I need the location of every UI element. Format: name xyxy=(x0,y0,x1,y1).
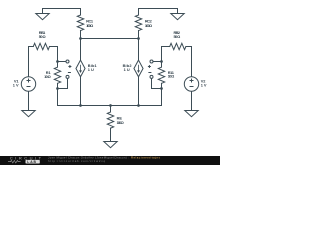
ground G1 top-left xyxy=(36,14,49,20)
ground under V1 xyxy=(22,111,35,117)
ground under V2 xyxy=(185,111,198,117)
wire node A to control terminal xyxy=(58,61,67,63)
V1 plus sign xyxy=(27,79,31,83)
V1 minus sign xyxy=(27,86,31,88)
svg-text:10 Ω: 10 Ω xyxy=(168,74,175,79)
resistor R1 xyxy=(54,62,60,84)
wire top-right rail xyxy=(139,9,178,14)
junction rail Bib1 xyxy=(79,104,82,107)
CircuitLab logo resistor zigzag xyxy=(8,160,21,163)
dependent source Bib1 xyxy=(76,60,85,77)
wire V1 to ground xyxy=(28,91,30,110)
footer bar xyxy=(0,156,220,165)
control terminal right - xyxy=(150,75,153,78)
junction rail Bib2 xyxy=(137,104,140,107)
wire RE top lead xyxy=(110,106,112,113)
wire control return right xyxy=(152,78,162,88)
wire RB2 from node B xyxy=(162,47,170,62)
svg-text:LAB: LAB xyxy=(27,160,36,164)
wire node B to control terminal xyxy=(153,61,162,63)
resistor RB1 xyxy=(33,43,49,49)
wire Bib1 top lead xyxy=(80,39,82,61)
control minus left xyxy=(68,72,71,74)
ground under RE xyxy=(104,142,117,148)
junction rail RE xyxy=(109,104,112,107)
resistor RC1 xyxy=(77,15,83,31)
svg-text:1 U: 1 U xyxy=(124,67,130,72)
voltage source V1 xyxy=(21,77,35,91)
control terminal left + xyxy=(66,60,69,63)
ground top-left stem xyxy=(42,9,44,14)
wire R11 bottom to rail xyxy=(161,83,163,105)
svg-text:Relacionvoltajes: Relacionvoltajes xyxy=(131,156,160,160)
junction under RC2 xyxy=(137,37,140,40)
control terminal left - xyxy=(66,75,69,78)
junction R11 bottom xyxy=(160,87,163,90)
wire RC2 top lead xyxy=(138,9,140,16)
svg-text:100 Ω: 100 Ω xyxy=(117,120,124,125)
wire RB1 right lead down to node A xyxy=(50,47,58,62)
svg-text:10 Ω: 10 Ω xyxy=(44,74,51,79)
junction node A xyxy=(56,60,59,63)
Bib2 arrow xyxy=(137,65,140,73)
svg-text:100 Ω: 100 Ω xyxy=(86,23,93,28)
junction node B xyxy=(160,60,163,63)
resistor RB2 xyxy=(170,43,186,49)
dependent source Bib2 xyxy=(134,60,143,77)
control minus right xyxy=(148,72,151,74)
wire RC1 bottom lead xyxy=(80,31,82,39)
resistor RC2 xyxy=(135,15,141,31)
wire V1 to RB1 xyxy=(29,47,34,77)
svg-text:http://circuitlab.com/c/zw2vq: http://circuitlab.com/c/zw2vq xyxy=(48,159,105,163)
ground G2 top-right xyxy=(171,14,184,20)
V2 plus sign xyxy=(190,79,194,83)
resistor RE xyxy=(107,112,113,128)
control plus right xyxy=(148,65,151,68)
wire V2 to ground xyxy=(191,91,193,110)
wire RB2 right lead to V2 xyxy=(186,47,192,77)
wire control return left xyxy=(58,78,68,88)
resistor R11 xyxy=(158,62,164,84)
svg-text:50 Ω: 50 Ω xyxy=(39,34,46,39)
control terminal right + xyxy=(150,60,153,63)
svg-text:1 U: 1 U xyxy=(88,67,94,72)
svg-text:1 V: 1 V xyxy=(201,83,207,88)
wire mid rail xyxy=(81,38,139,40)
wire Bib1 bottom lead xyxy=(80,77,82,106)
wire RE to ground xyxy=(110,128,112,141)
svg-text:50 Ω: 50 Ω xyxy=(174,34,181,39)
wire R1 bottom to rail xyxy=(57,83,59,105)
wire top-left rail to RC1 xyxy=(43,9,81,16)
voltage source V2 xyxy=(184,77,198,91)
wire RC2 bottom lead xyxy=(138,31,140,39)
wire Bib2 top lead xyxy=(138,39,140,61)
svg-text:100 Ω: 100 Ω xyxy=(145,23,152,28)
V2 minus sign xyxy=(190,86,194,88)
wire Bib2 bottom lead xyxy=(138,77,140,106)
CircuitLab logo LAB box xyxy=(26,160,40,164)
wire bottom rail xyxy=(58,105,162,107)
junction under RC1 xyxy=(79,37,82,40)
Bib1 arrow xyxy=(79,65,82,73)
junction R1 bottom xyxy=(56,87,59,90)
control plus left xyxy=(68,65,71,68)
svg-text:1 V: 1 V xyxy=(13,83,19,88)
